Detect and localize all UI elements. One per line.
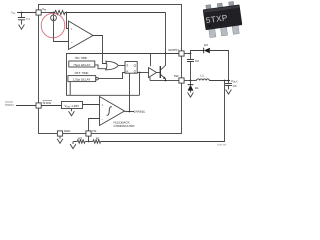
svg-text:SW: SW [174, 74, 179, 78]
svg-text:D2: D2 [204, 43, 208, 47]
svg-text:BOOST: BOOST [169, 48, 180, 52]
svg-text:R1: R1 [96, 136, 100, 140]
svg-text:+: + [71, 27, 73, 31]
svg-text:OFF TIME: OFF TIME [75, 71, 89, 75]
svg-text:ON TIME: ON TIME [75, 56, 87, 60]
svg-text:1.3µs DELAY: 1.3µs DELAY [73, 78, 91, 82]
svg-text:COMPARATOR: COMPARATOR [114, 124, 136, 128]
svg-text:SHDN: SHDN [5, 103, 14, 107]
svg-text:C3: C3 [233, 84, 237, 88]
svg-text:C1: C1 [26, 17, 30, 21]
svg-text:R2: R2 [78, 136, 82, 140]
svg-text:75µA DELAY: 75µA DELAY [73, 63, 90, 67]
svg-text:S: S [126, 63, 128, 67]
svg-text:C2: C2 [195, 59, 199, 63]
svg-text:FB: FB [93, 129, 97, 133]
svg-text:L1: L1 [201, 74, 205, 78]
svg-text:ENABLE: ENABLE [134, 109, 146, 113]
svg-text:GND: GND [64, 129, 72, 133]
svg-text:SHDN: SHDN [43, 101, 52, 105]
svg-text:+: + [101, 103, 103, 107]
svg-text:D1: D1 [195, 86, 199, 90]
svg-text:1934 BD: 1934 BD [217, 143, 227, 146]
